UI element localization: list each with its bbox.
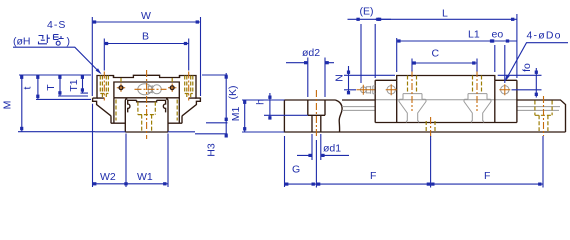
hangul 관 [39, 35, 50, 44]
dimension G [285, 136, 317, 188]
counterbore notch in rail top [137, 100, 157, 102]
hangul 통 [54, 35, 64, 40]
dimension H3 [195, 134, 228, 157]
svg-text:W2: W2 [100, 171, 116, 183]
dimension eo outside arrows [491, 29, 517, 84]
dimension L [375, 8, 517, 79]
baseline extensions [95, 131, 195, 133]
rail bolt hole hidden (end view) [138, 102, 155, 115]
block silhouette [93, 75, 201, 123]
svg-text:N: N [334, 74, 346, 82]
rail groove lines right of break [342, 107, 560, 111]
svg-text:fo: fo [521, 63, 533, 72]
ball return guide left (gray) [399, 94, 426, 123]
face plate side edges extended to jaw [114, 98, 179, 123]
cap screw hidden dashes [121, 78, 172, 82]
carriage outline: caps and bottom [375, 80, 517, 122]
rail bottom [125, 131, 168, 133]
top hole centerlines [412, 70, 477, 111]
svg-text:(øH: (øH [13, 36, 31, 48]
svg-text:4-S: 4-S [47, 19, 66, 31]
svg-text:B: B [142, 30, 149, 42]
dimension (K) [202, 73, 239, 138]
grease nipple side (gray) [361, 86, 376, 94]
svg-text:(K): (K) [227, 86, 239, 100]
cap face plate [114, 82, 179, 98]
svg-text:T1: T1 [68, 79, 80, 91]
svg-text:H3: H3 [206, 143, 218, 157]
svg-text:M: M [2, 101, 14, 110]
rail outline with end chamfer and break [284, 100, 565, 132]
jaw bottom edges [111, 122, 182, 124]
svg-text:C: C [432, 48, 440, 60]
svg-text:W: W [141, 10, 151, 22]
cap hole left: gray circle + orange cross [386, 84, 397, 95]
dimension h outside arrows [246, 93, 307, 120]
svg-text:M1: M1 [230, 107, 242, 122]
svg-text:(E): (E) [360, 6, 374, 18]
rail hole 1 (sectioned, solid) [308, 100, 325, 132]
svg-text:ød1: ød1 [323, 143, 341, 155]
svg-text:F: F [370, 170, 376, 182]
dimension T [45, 75, 88, 96]
dimension (E) outside arrows [348, 6, 392, 84]
dimension M1 [230, 100, 284, 132]
dimension W2 / W1 [93, 104, 169, 187]
svg-text:): ) [67, 36, 71, 48]
dimension od1 outside arrows [297, 134, 349, 160]
rail groove profile right with bump [157, 100, 166, 112]
ear hole left hidden lines [100, 76, 108, 98]
dimension fo outside arrows [498, 63, 542, 98]
dimension T1 [68, 75, 88, 93]
svg-text:eo: eo [492, 29, 504, 41]
side hidden screw lines [116, 100, 177, 121]
svg-text:W1: W1 [137, 171, 153, 183]
nipple centerline cross [357, 85, 375, 95]
vertical centerline [146, 70, 148, 139]
block top mounting holes hidden [408, 76, 482, 93]
under-ear ledge lines [97, 97, 196, 99]
svg-text:4-øDo: 4-øDo [527, 30, 562, 42]
nipple horizontal centerline [135, 88, 167, 90]
ear hole right hidden lines [185, 76, 193, 98]
svg-text:G: G [292, 164, 300, 176]
svg-text:ød2: ød2 [302, 47, 320, 59]
dimension W [92, 10, 200, 96]
rail break line [336, 100, 343, 132]
cap hole right: gray circle + orange cross [499, 84, 510, 95]
svg-text:t: t [22, 86, 34, 89]
dimension C [412, 48, 477, 72]
dimension L1 [397, 29, 495, 73]
cap screw cross left [117, 84, 125, 92]
rail hole 2 hidden below block [426, 121, 435, 132]
carriage body top [397, 76, 495, 81]
label 4-S with leader [13, 19, 102, 74]
cap joint lines [397, 80, 495, 122]
cap screw cross right [168, 84, 176, 92]
grease nipple front (gray) [138, 84, 162, 95]
ear hole left centerline [103, 72, 105, 101]
dimension od2 outside arrows [286, 47, 334, 97]
rail hole 1 centerline [315, 90, 317, 137]
ear hole right centerline [188, 72, 190, 101]
ball return guide right (gray) [464, 94, 491, 123]
rail top hidden behind block (gray) [375, 99, 517, 101]
svg-text:T: T [45, 84, 57, 91]
label 4-oDo with leader [505, 30, 568, 82]
rail sides (jaw inner walls) [125, 99, 168, 132]
svg-text:F: F [484, 170, 490, 182]
dimension t [22, 75, 92, 99]
ear step verticals [114, 76, 180, 78]
svg-text:L1: L1 [468, 29, 480, 41]
svg-text:L: L [442, 8, 448, 20]
dimension B [104, 30, 188, 70]
rail hole 3 hidden [535, 101, 552, 132]
dimension N outside arrows [334, 66, 396, 94]
dimension M [2, 75, 96, 132]
dimension F F [316, 136, 543, 188]
rail groove profile left with bump [128, 100, 137, 112]
